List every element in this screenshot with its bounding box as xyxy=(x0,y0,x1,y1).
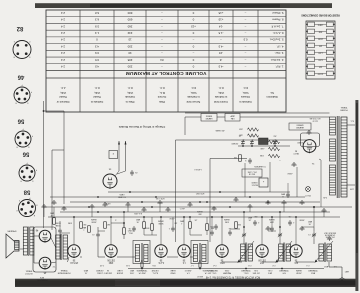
tube socket diagram 82 xyxy=(13,25,31,59)
svg-text:SW. ON: SW. ON xyxy=(248,173,255,175)
svg-text:DET.58: DET.58 xyxy=(258,258,266,260)
extra grounds xyxy=(41,201,326,213)
svg-text:VOL. CONT.: VOL. CONT. xyxy=(325,236,335,238)
svg-text:.01: .01 xyxy=(84,272,88,274)
svg-text:58: 58 xyxy=(182,258,185,260)
ground below antenna coil xyxy=(327,237,332,241)
resistor board connections diagram xyxy=(301,14,340,79)
svg-text:POWER: POWER xyxy=(340,109,348,111)
pilot lamp xyxy=(304,187,310,196)
svg-text:COIL: COIL xyxy=(267,269,273,271)
svg-text:.1: .1 xyxy=(258,221,260,223)
svg-text:K: K xyxy=(16,209,18,211)
extra resistor R30 xyxy=(189,217,192,235)
wire bus screen y81 xyxy=(60,211,330,213)
svg-text:-14: -14 xyxy=(219,24,224,28)
svg-text:TRIMMERS: TRIMMERS xyxy=(136,269,147,271)
svg-text:Heater: Heater xyxy=(59,95,67,99)
power transformer labels xyxy=(309,106,348,121)
svg-text:56: 56 xyxy=(17,118,24,124)
wire field coil vertical xyxy=(52,150,64,230)
wire bus B+ y76 xyxy=(48,216,340,218)
ground at rectifier xyxy=(306,131,311,135)
svg-text:Radiotron: Radiotron xyxy=(266,95,278,99)
svg-text:VOLUME CONTROL AT MAXIMUM: VOLUME CONTROL AT MAXIMUM xyxy=(126,71,207,76)
svg-text:OSC.: OSC. xyxy=(211,272,216,274)
wire AVC bus top xyxy=(128,268,324,270)
svg-text:MFD: MFD xyxy=(83,269,88,271)
svg-text:46'S: 46'S xyxy=(39,276,44,278)
svg-text:350: 350 xyxy=(319,66,322,68)
svg-text:46: 46 xyxy=(17,74,24,80)
svg-text:0: 0 xyxy=(192,58,194,62)
svg-text:G: G xyxy=(31,179,33,181)
svg-text:250M: 250M xyxy=(91,221,96,223)
wire run tone control corner xyxy=(210,159,247,243)
svg-text:VOL. CONT.: VOL. CONT. xyxy=(247,170,257,172)
svg-text:Cathode: Cathode xyxy=(125,95,135,99)
svg-text:.5M: .5M xyxy=(107,223,111,225)
svg-text:–: – xyxy=(161,18,163,22)
svg-text:ANT.: ANT. xyxy=(323,265,328,268)
svg-text:Volts,: Volts, xyxy=(94,91,101,95)
svg-text:Change in Wiring of Remote Mod: Change in Wiring of Remote Models xyxy=(118,125,165,129)
svg-text:10,000: 10,000 xyxy=(318,73,323,75)
tube V4 58 I.F. xyxy=(178,245,190,263)
extra horizontal connector wires xyxy=(60,223,314,235)
svg-text:0: 0 xyxy=(192,11,194,15)
svg-text:R: R xyxy=(112,152,114,154)
AC line input leads xyxy=(347,120,355,190)
voltage table frame xyxy=(46,10,286,112)
svg-text:1: 1 xyxy=(83,229,84,231)
trimmer capacitor on y147 wire C xyxy=(239,135,245,146)
svg-text:1,500: 1,500 xyxy=(318,52,322,54)
svg-text:A.C.: A.C. xyxy=(350,120,354,123)
bus y86 left extension xyxy=(345,206,352,208)
antenna coil T1 xyxy=(319,243,332,268)
svg-text:MFD: MFD xyxy=(307,220,312,222)
svg-text:.05: .05 xyxy=(137,221,140,223)
svg-text:OHMS: OHMS xyxy=(223,218,229,220)
svg-text:2M: 2M xyxy=(254,215,257,217)
output transformer T7 xyxy=(23,227,34,257)
svg-text:F: F xyxy=(14,40,15,42)
svg-text:Filament or: Filament or xyxy=(56,100,69,104)
inset wires with arrows xyxy=(115,141,127,176)
tuning capacitor C2 xyxy=(278,227,282,244)
svg-text:MFD: MFD xyxy=(280,193,285,195)
note L-49 pointer text xyxy=(194,168,201,170)
svg-text:2M: 2M xyxy=(238,223,241,225)
svg-text:2.4: 2.4 xyxy=(61,31,65,35)
svg-text:.05: .05 xyxy=(135,171,138,173)
label box heater wiring xyxy=(289,123,311,130)
svg-text:COIL: COIL xyxy=(254,269,258,271)
svg-text:0.5: 0.5 xyxy=(95,58,99,62)
svg-text:-6: -6 xyxy=(219,58,222,62)
svg-text:2.4: 2.4 xyxy=(61,24,65,28)
svg-text:.02: .02 xyxy=(51,214,54,216)
svg-text:.25: .25 xyxy=(195,219,198,221)
inset coupling condenser xyxy=(130,170,138,176)
svg-text:ANT.: ANT. xyxy=(310,272,315,275)
tube socket diagram 56 osc xyxy=(19,151,37,182)
svg-text:Chassis: Chassis xyxy=(240,95,250,99)
wire bus cathode y91 xyxy=(70,201,320,203)
svg-text:OHMS: OHMS xyxy=(295,269,302,271)
svg-text:Current: Current xyxy=(157,95,166,99)
svg-text:600: 600 xyxy=(319,45,322,47)
svg-text:+15: +15 xyxy=(191,24,196,28)
svg-text:2M: 2M xyxy=(83,223,86,225)
inset resistor box xyxy=(109,151,118,159)
svg-text:8 MFD: 8 MFD xyxy=(297,141,303,143)
svg-text:WIRING: WIRING xyxy=(205,115,212,117)
svg-text:No.: No. xyxy=(270,91,274,95)
svg-text:.25: .25 xyxy=(249,219,252,221)
svg-text:COND.: COND. xyxy=(96,272,103,274)
svg-text:2.4: 2.4 xyxy=(61,51,65,55)
tuning capacitor C3 xyxy=(242,227,246,244)
svg-text:250: 250 xyxy=(274,135,277,137)
coupling capacitor C12 xyxy=(92,232,100,238)
trimmer capacitor on y147 wire A xyxy=(273,135,277,146)
svg-text:–: – xyxy=(244,65,246,69)
svg-text:110V: 110V xyxy=(349,188,354,190)
ground in power section xyxy=(291,163,296,167)
svg-text:82: 82 xyxy=(16,25,23,31)
svg-text:60 CYCLES: 60 CYCLES xyxy=(309,117,320,119)
svg-text:8. Power: 8. Power xyxy=(272,18,283,22)
cathode resistor R3 xyxy=(206,217,214,235)
trimmer capacitor on y147 wire B xyxy=(250,135,254,146)
svg-text:Volts,: Volts, xyxy=(127,91,134,95)
svg-text:L-49 6-1: L-49 6-1 xyxy=(194,168,201,170)
svg-text:+: + xyxy=(279,159,281,161)
svg-text:6. A.V.C.: 6. A.V.C. xyxy=(272,31,283,35)
svg-text:INTERSTAGE: INTERSTAGE xyxy=(57,272,70,275)
svg-text:OHMS: OHMS xyxy=(196,210,202,212)
oscillator coil T3 xyxy=(241,243,253,263)
svg-text:TO GRID: TO GRID xyxy=(117,196,125,198)
svg-text:205: 205 xyxy=(127,58,132,62)
svg-text:.05: .05 xyxy=(229,227,232,229)
svg-text:1. R.F.: 1. R.F. xyxy=(275,65,283,69)
switch label box xyxy=(242,169,262,177)
svg-text:–: – xyxy=(220,38,222,42)
svg-text:C1: C1 xyxy=(308,233,310,235)
svg-text:D.C.: D.C. xyxy=(159,86,164,90)
svg-text:5V.: 5V. xyxy=(311,162,314,164)
extra junction dots xyxy=(123,206,315,228)
svg-text:I.F.: I.F. xyxy=(186,272,189,274)
svg-text:P: P xyxy=(36,168,37,170)
svg-text:.05: .05 xyxy=(129,227,132,229)
svg-text:–: – xyxy=(244,44,246,48)
svg-text:Cathode to: Cathode to xyxy=(239,100,252,104)
svg-text:2.4: 2.4 xyxy=(61,11,65,15)
svg-text:4. I.F.: 4. I.F. xyxy=(276,44,283,48)
extra capacitor C31 xyxy=(210,217,214,236)
svg-text:ELECT.: ELECT. xyxy=(251,184,258,186)
svg-text:DET.56: DET.56 xyxy=(107,258,115,260)
page edge smudge bar (top strip of original scan) xyxy=(35,3,332,8)
svg-text:C-1: C-1 xyxy=(306,264,309,266)
svg-text:6.8: 6.8 xyxy=(95,11,99,15)
tube V2 58 1st Detector xyxy=(256,245,268,263)
svg-text:–: – xyxy=(244,51,246,55)
tube V10 82 rectifier in shield xyxy=(293,133,320,154)
extra wire stubs xyxy=(44,205,324,227)
svg-text:–: – xyxy=(192,51,194,55)
svg-text:1.3: 1.3 xyxy=(95,31,99,35)
screen bypass capacitor C8 xyxy=(169,217,175,232)
svg-text:G: G xyxy=(28,56,30,58)
svg-text:C-4: C-4 xyxy=(213,264,216,266)
svg-text:ON REMOTE: ON REMOTE xyxy=(324,233,335,235)
tube V9 46 Power push-pull lower xyxy=(35,229,51,243)
svg-text:–: – xyxy=(244,58,246,62)
2nd I.F. transformer T5 xyxy=(133,241,150,264)
svg-text:–: – xyxy=(244,18,246,22)
svg-text:0: 0 xyxy=(192,44,194,48)
svg-text:5.9: 5.9 xyxy=(95,24,99,28)
wire bus heater y96 xyxy=(50,196,305,198)
svg-text:–: – xyxy=(161,44,163,48)
svg-text:C-11: C-11 xyxy=(126,264,130,266)
svg-text:to Cathode: to Cathode xyxy=(214,95,227,99)
svg-text:D.C.: D.C. xyxy=(191,86,196,90)
ground below R.F. stage xyxy=(299,227,304,231)
svg-text:–: – xyxy=(192,38,194,42)
svg-text:G: G xyxy=(36,204,38,206)
svg-text:OSC.: OSC. xyxy=(243,272,248,274)
svg-text:.0011: .0011 xyxy=(224,269,230,271)
svg-text:1 MEG: 1 MEG xyxy=(317,24,323,26)
filter electrolytic C20 xyxy=(280,183,289,198)
svg-text:F: F xyxy=(26,162,27,164)
svg-text:7. 1st A.F.: 7. 1st A.F. xyxy=(271,24,284,28)
grid resistor on AVC lead R2 xyxy=(199,260,201,269)
svg-text:TRIMMER: TRIMMER xyxy=(241,269,251,271)
svg-text:2.4: 2.4 xyxy=(61,44,65,48)
cathode resistor R6 xyxy=(144,217,153,235)
svg-text:.01: .01 xyxy=(92,233,95,235)
tube V5 56 A.V.C. xyxy=(155,245,167,264)
svg-text:.5: .5 xyxy=(245,159,247,161)
svg-text:PADDER: PADDER xyxy=(222,272,231,275)
svg-text:T-2: T-2 xyxy=(53,265,56,267)
svg-text:2.4V.: 2.4V. xyxy=(322,196,327,198)
caption: model title xyxy=(205,276,260,279)
svg-text:0.9: 0.9 xyxy=(95,51,99,55)
extra value labels lower row xyxy=(49,210,312,226)
svg-text:M.A.,: M.A., xyxy=(159,91,165,95)
page edge smudge bar (bottom of original scan) xyxy=(15,279,356,287)
svg-text:-1.5: -1.5 xyxy=(218,31,223,35)
tuning arrow across R.F. coil xyxy=(275,241,292,263)
svg-text:HTR. 2.4V.: HTR. 2.4V. xyxy=(155,197,164,199)
loudspeaker LS1 xyxy=(6,230,19,259)
svg-text:2ND DET.: 2ND DET. xyxy=(103,272,112,274)
wire plate drops xyxy=(74,217,296,245)
svg-text:L-7: L-7 xyxy=(191,264,194,266)
svg-text:GRID: GRID xyxy=(170,272,176,274)
svg-text:D.C.: D.C. xyxy=(243,86,248,90)
filter resistor R22 zigzag xyxy=(260,140,279,144)
svg-text:TO HEATERS: TO HEATERS xyxy=(254,165,266,168)
svg-text:FILTER: FILTER xyxy=(151,269,158,271)
svg-text:8 MFD: 8 MFD xyxy=(251,181,257,183)
svg-text:50M: 50M xyxy=(225,221,229,223)
wire B+ feed to output xyxy=(43,110,64,204)
svg-text:84: 84 xyxy=(160,58,164,62)
svg-text:.05: .05 xyxy=(289,215,292,217)
power area extra labels xyxy=(215,129,327,198)
svg-text:-4.5: -4.5 xyxy=(218,44,223,48)
svg-text:2ND I.F.: 2ND I.F. xyxy=(138,272,146,274)
svg-text:+: + xyxy=(262,180,264,183)
svg-text:56: 56 xyxy=(72,258,75,260)
capacitor C23 xyxy=(245,158,252,164)
table data cells xyxy=(61,11,284,69)
svg-text:P: P xyxy=(31,90,32,92)
grid leak R5 xyxy=(235,222,241,229)
extra filter zigzag R25 xyxy=(239,128,259,132)
svg-text:9. Power: 9. Power xyxy=(272,11,283,15)
tuning arrow across oscillator coil xyxy=(237,241,254,263)
extra resistor R31 xyxy=(143,217,146,235)
svg-text:.25 MFD: .25 MFD xyxy=(231,142,239,144)
svg-text:OHMS: OHMS xyxy=(90,218,96,220)
R.F. coil T2 xyxy=(279,243,291,263)
note: change in wiring of remote models xyxy=(118,125,165,129)
svg-text:CATH.: CATH. xyxy=(105,202,111,205)
svg-text:HTR. RET.: HTR. RET. xyxy=(195,192,204,194)
svg-text:Plate: Plate xyxy=(159,100,165,104)
wire speaker return long vertical xyxy=(43,101,45,228)
svg-text:40M: 40M xyxy=(239,134,243,136)
svg-text:4.3: 4.3 xyxy=(95,44,99,48)
svg-text:-15: -15 xyxy=(219,51,224,55)
svg-text:SPEAKER: SPEAKER xyxy=(7,230,17,233)
svg-text:TRIMMER: TRIMMER xyxy=(279,269,289,271)
svg-text:–: – xyxy=(161,38,163,42)
svg-text:0: 0 xyxy=(96,38,98,42)
svg-text:–: – xyxy=(244,31,246,35)
svg-text:C-2: C-2 xyxy=(272,264,275,266)
extra filter zigzag R23 xyxy=(239,134,259,138)
svg-text:56: 56 xyxy=(220,258,223,260)
filter resistor R20 zigzag xyxy=(260,154,280,158)
svg-text:+: + xyxy=(263,147,265,149)
svg-text:MFD: MFD xyxy=(247,216,252,218)
svg-text:56: 56 xyxy=(22,151,29,157)
svg-text:–: – xyxy=(161,51,163,55)
output wiring label box A xyxy=(225,114,240,122)
svg-text:2.4: 2.4 xyxy=(61,38,65,42)
svg-text:RECT.: RECT. xyxy=(293,152,299,154)
tube V7 56 1st A.F. xyxy=(68,245,80,264)
svg-text:ANT.: ANT. xyxy=(344,270,349,273)
svg-text:TRIMMER: TRIMMER xyxy=(308,269,318,271)
svg-text:Volts,: Volts, xyxy=(218,91,225,95)
svg-text:D.C.: D.C. xyxy=(94,86,99,90)
svg-text:C-12: C-12 xyxy=(100,264,104,266)
svg-text:250: 250 xyxy=(127,44,132,48)
svg-text:46: 46 xyxy=(35,229,38,231)
svg-text:.0001: .0001 xyxy=(130,272,135,274)
table title VOLUME CONTROL AT MAXIMUM xyxy=(126,71,207,76)
svg-text:HEATER: HEATER xyxy=(205,117,212,120)
svg-text:1ST I.F.: 1ST I.F. xyxy=(204,272,211,274)
svg-text:+265V.: +265V. xyxy=(287,172,293,174)
extra resistor R32 xyxy=(53,207,56,224)
bypass capacitor C5 xyxy=(288,220,295,226)
svg-text:to Cathode: to Cathode xyxy=(187,95,200,99)
svg-text:D.C.: D.C. xyxy=(127,86,132,90)
volume control R10 xyxy=(123,223,134,239)
svg-text:P: P xyxy=(29,196,30,198)
svg-text:+15: +15 xyxy=(218,18,223,22)
resistor R24 xyxy=(234,155,242,162)
svg-text:30M: 30M xyxy=(318,31,322,33)
svg-text:H: H xyxy=(13,56,15,58)
more top row labels xyxy=(24,269,260,277)
svg-text:DIODE: DIODE xyxy=(116,272,123,274)
svg-text:6.3: 6.3 xyxy=(95,18,99,22)
grid resistor R12 xyxy=(81,226,90,233)
svg-text:455 KC: 455 KC xyxy=(196,275,203,277)
svg-text:58: 58 xyxy=(23,189,30,195)
svg-text:600: 600 xyxy=(127,11,132,15)
svg-text:250M: 250M xyxy=(299,219,304,221)
svg-text:250M: 250M xyxy=(296,272,301,274)
svg-text:MFD: MFD xyxy=(179,220,184,222)
bus labels xyxy=(105,192,204,219)
diode load R8 xyxy=(104,222,111,229)
svg-text:F: F xyxy=(22,128,23,130)
svg-text:DET.: DET. xyxy=(267,272,272,274)
filter resistor R21 zigzag xyxy=(260,147,279,151)
wire run to remote control corner xyxy=(176,140,309,242)
filter electrolytic C21 box xyxy=(251,178,268,187)
tube socket diagram 56 det xyxy=(15,118,33,148)
svg-text:400 OHMS: 400 OHMS xyxy=(215,129,225,131)
svg-text:A.C.: A.C. xyxy=(60,86,65,90)
svg-text:0: 0 xyxy=(192,18,194,22)
svg-text:OHMS: OHMS xyxy=(157,220,163,222)
inset top labels xyxy=(117,193,125,197)
svg-text:1ST DET.: 1ST DET. xyxy=(252,272,260,274)
wire transformer leads extension xyxy=(185,113,290,135)
svg-text:455 KC: 455 KC xyxy=(184,269,191,271)
svg-text:Heater: Heater xyxy=(93,95,101,99)
padding capacitor C4 xyxy=(228,227,232,236)
tube V6 56 2nd Detector xyxy=(105,245,117,263)
electrolytic can xyxy=(259,138,269,145)
power transformer T8 xyxy=(330,116,348,198)
svg-text:350: 350 xyxy=(198,213,201,215)
svg-text:PILOT: PILOT xyxy=(304,194,310,196)
tube V1 58 R.F. xyxy=(290,245,302,263)
svg-text:A.V.C.: A.V.C. xyxy=(179,207,185,210)
table header cells xyxy=(56,86,277,104)
tube socket diagram 46 xyxy=(14,74,32,104)
interstage transformer T6 xyxy=(56,234,68,260)
svg-text:H: H xyxy=(15,101,17,103)
